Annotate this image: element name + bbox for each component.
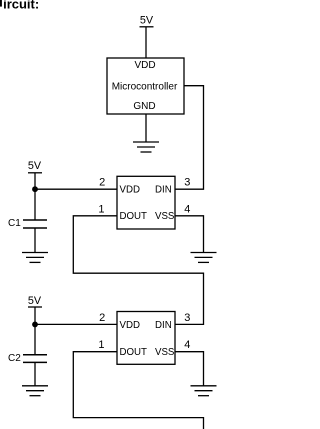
microcontroller box [107, 58, 184, 114]
svg-text:DIN: DIN [155, 185, 172, 196]
wire: DOUT pin 1 of U3 onward (to next stage, clipped) [73, 352, 203, 429]
svg-text:C2: C2 [8, 353, 21, 364]
svg-text:1: 1 [98, 339, 104, 351]
ground (C2) [22, 386, 48, 396]
wire: VSS pin 4 of U3 to ground [175, 352, 204, 386]
svg-text:ircuit:: ircuit: [3, 0, 39, 11]
svg-text:VSS: VSS [155, 347, 175, 358]
svg-text:3: 3 [184, 312, 190, 324]
heading text (clipped "...circuit:") [0, 0, 2, 7]
5V supply (stage 2) [28, 307, 42, 355]
svg-text:2: 2 [99, 312, 105, 324]
wire: microcontroller GND to ground [145, 114, 147, 142]
wire: microcontroller output to DIN of U2 [175, 86, 204, 190]
wire: DOUT pin 1 of U2 to DIN pin 3 of U3 [73, 216, 203, 325]
capacitor C2 [23, 355, 47, 363]
junction node [32, 322, 38, 328]
svg-text:5V: 5V [28, 295, 42, 307]
ground (U3 VSS) [191, 386, 217, 396]
svg-text:C1: C1 [8, 218, 21, 229]
capacitor C1 [23, 220, 47, 228]
svg-text:4: 4 [184, 339, 190, 351]
ground (U2 VSS) [191, 253, 217, 263]
svg-text:VDD: VDD [120, 185, 140, 196]
ground (C1) [22, 253, 48, 263]
svg-text:4: 4 [184, 203, 190, 215]
svg-text:DIN: DIN [155, 320, 172, 331]
svg-text:Microcontroller: Microcontroller [112, 81, 178, 92]
svg-text:VDD: VDD [120, 320, 140, 331]
wire: VSS pin 4 to ground [175, 216, 204, 253]
svg-text:2: 2 [99, 177, 105, 189]
svg-text:5V: 5V [28, 160, 42, 172]
5V supply (top, feeding microcontroller) [140, 27, 154, 58]
5V supply (stage 1) [28, 173, 42, 220]
svg-text:5V: 5V [140, 15, 154, 27]
svg-text:GND: GND [133, 101, 155, 112]
svg-text:VSS: VSS [155, 211, 175, 222]
svg-text:1: 1 [98, 203, 104, 215]
junction node [32, 186, 38, 192]
svg-text:3: 3 [184, 177, 190, 189]
IC U2 (first driver) [117, 176, 175, 229]
wire: 5V rail to VDD pin 2 [35, 188, 117, 190]
svg-text:DOUT: DOUT [120, 211, 148, 222]
svg-text:VDD: VDD [134, 60, 155, 71]
ground (microcontroller) [133, 142, 159, 152]
wire: 5V rail to VDD pin 2 of U3 [35, 323, 117, 325]
IC U3 (second driver) [117, 312, 175, 365]
svg-text:DOUT: DOUT [120, 347, 148, 358]
